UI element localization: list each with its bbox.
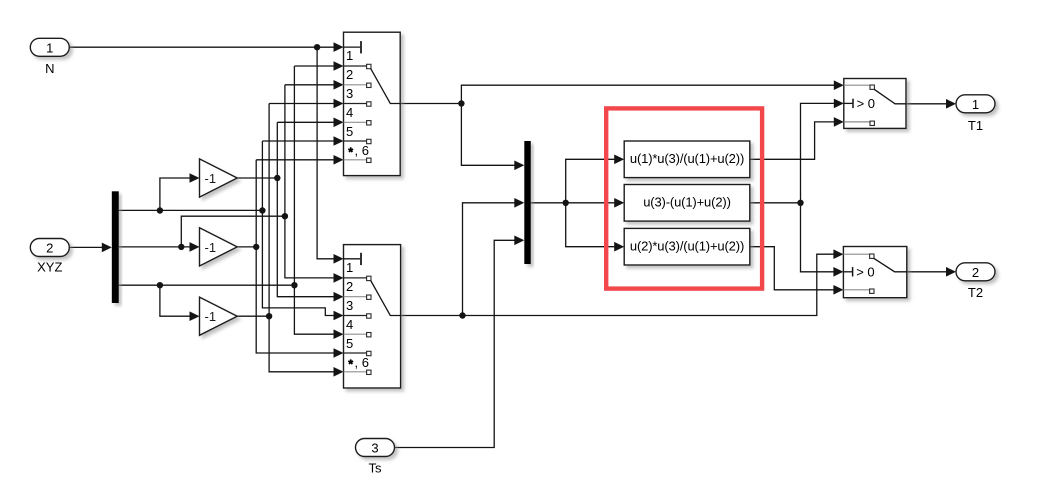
- wire net -Y to switch2 port5: [256, 160, 334, 353]
- port inport 3 Ts: [356, 439, 395, 476]
- svg-text:5: 5: [346, 336, 353, 351]
- wire Fcn3 out to T-switch2 in3: [750, 247, 834, 290]
- wire switch1 out to mux in1: [461, 104, 514, 166]
- svg-text:1: 1: [46, 40, 53, 55]
- wire switch1 out to T-switch1 in1: [400, 85, 834, 103]
- wire Fcn2 out: [750, 202, 801, 204]
- junction gain3 out tee: [266, 313, 272, 319]
- threshold switch 1 (Switch > 0): [844, 79, 906, 129]
- junction X to gain1: [157, 207, 163, 213]
- gain2 -1 triangle: [200, 228, 238, 266]
- wire net Y to switch2 port1: [285, 85, 334, 278]
- wire net -Z to switch1 port3: [269, 103, 334, 105]
- wire gain1 out: [237, 177, 277, 179]
- junction gain2 out tee: [253, 244, 259, 250]
- junction gain1 out tee: [274, 175, 280, 181]
- wire net Y to switch1 port2: [285, 84, 334, 86]
- junction Z tee: [291, 282, 297, 288]
- wire mux out to Fcn1: [566, 159, 615, 203]
- wire net -Y vertical: [256, 159, 334, 161]
- wire T-switch2 to T2: [907, 271, 946, 273]
- wire switch2 out to mux in2: [463, 203, 515, 316]
- wire branch X to gain1: [160, 178, 190, 211]
- junction Z to gain3: [157, 282, 163, 288]
- svg-text:-1: -1: [205, 171, 217, 186]
- wire switch2 out to T-switch2 in1: [401, 254, 834, 315]
- port outport 1 T1: [956, 95, 995, 133]
- wire gain3 out: [237, 315, 269, 317]
- svg-text:3: 3: [346, 298, 353, 313]
- wire branch Y: [181, 216, 285, 247]
- svg-text:1: 1: [346, 260, 353, 275]
- wire net X to switch1 port5: [262, 140, 333, 142]
- svg-text:4: 4: [346, 105, 353, 120]
- wire control to T-switch1 in2: [801, 103, 835, 202]
- svg-text:2: 2: [46, 241, 53, 256]
- svg-text:Ts: Ts: [369, 460, 383, 475]
- wire mux out to Fcn3: [566, 203, 615, 247]
- svg-text:u(2)*u(3)/(u(1)+u(2)): u(2)*u(3)/(u(1)+u(2)): [630, 238, 744, 253]
- svg-text:N: N: [45, 61, 54, 76]
- junction control tee: [797, 200, 803, 206]
- junction switch2 out tee: [459, 312, 465, 318]
- multiport switch 1 (MultiPortSwitch): [344, 32, 401, 175]
- svg-text:u(3)-(u(1)+u(2)): u(3)-(u(1)+u(2)): [643, 194, 731, 209]
- wire T-switch1 to T1: [906, 103, 946, 105]
- gain3 -1 triangle: [200, 297, 238, 335]
- junction switch1 out tee: [458, 100, 464, 106]
- svg-text:> 0: > 0: [857, 96, 875, 111]
- mux (black bar): [524, 141, 531, 264]
- svg-text:> 0: > 0: [856, 265, 874, 280]
- junction X tee: [259, 207, 265, 213]
- Fcn1 block u(1)*u(3)/(u(1)+u(2)): [624, 141, 750, 178]
- svg-text:5: 5: [346, 124, 353, 139]
- Fcn2 block u(3)-(u(1)+u(2)): [624, 185, 750, 222]
- wire mux out to Fcn2: [531, 202, 615, 204]
- svg-text:-1: -1: [205, 309, 217, 324]
- svg-text:u(1)*u(3)/(u(1)+u(2)): u(1)*u(3)/(u(1)+u(2)): [630, 151, 744, 166]
- svg-text:1: 1: [346, 48, 353, 63]
- svg-text:3: 3: [346, 86, 353, 101]
- junction Y tee: [282, 213, 288, 219]
- svg-text:, 6: , 6: [355, 355, 369, 370]
- demux XYZ (black bar): [112, 191, 119, 303]
- wire demux out1 X: [119, 209, 263, 211]
- threshold switch 2 (Switch > 0): [843, 247, 906, 298]
- wire control to T-switch2 in2: [801, 203, 834, 272]
- svg-text:-1: -1: [205, 240, 217, 255]
- junction N line: [314, 44, 320, 50]
- svg-text:2: 2: [346, 279, 353, 294]
- svg-text:T2: T2: [968, 285, 983, 300]
- Fcn3 block u(2)*u(3)/(u(1)+u(2)): [624, 228, 750, 265]
- wire net -X to switch2 port2: [277, 122, 333, 296]
- multiport switch 2 (MultiPortSwitch): [344, 245, 401, 388]
- wire N to switch1 control: [69, 46, 333, 48]
- svg-text:1: 1: [972, 97, 979, 112]
- junction Y branch: [178, 244, 184, 250]
- wire XYZ to demux: [69, 246, 102, 248]
- port inport 2 XYZ: [30, 239, 69, 275]
- wire branch Z to gain3: [160, 285, 190, 316]
- wire Ts to mux in3: [395, 240, 515, 447]
- wire Fcn1 out to T-switch1 in3: [750, 122, 834, 159]
- gain1 -1 triangle: [200, 159, 238, 197]
- wire net Z to switch1 port1: [294, 65, 333, 67]
- port outport 2 T2: [956, 263, 995, 300]
- wire N branch to switch2 control: [317, 47, 334, 259]
- svg-text:4: 4: [346, 317, 353, 332]
- svg-text:2: 2: [346, 67, 353, 82]
- svg-text:3: 3: [371, 441, 378, 456]
- svg-text:T1: T1: [968, 118, 983, 133]
- port inport 1 N: [30, 38, 69, 76]
- junction mux out tee: [563, 200, 569, 206]
- wire demux out2 Y to gain2: [119, 246, 190, 248]
- svg-text:2: 2: [972, 265, 979, 280]
- red annotation box: [606, 108, 762, 288]
- svg-text:XYZ: XYZ: [37, 260, 62, 275]
- wire gain2 out: [237, 246, 256, 248]
- wire net -Z to switch2 port6: [269, 104, 334, 372]
- wire net Z to switch2 port4: [294, 66, 333, 334]
- wire demux out3 Z: [119, 284, 295, 286]
- svg-text:, 6: , 6: [355, 143, 369, 158]
- wire net X to switch2 port3: [262, 141, 333, 316]
- wire net -X to switch1 port4: [277, 121, 333, 123]
